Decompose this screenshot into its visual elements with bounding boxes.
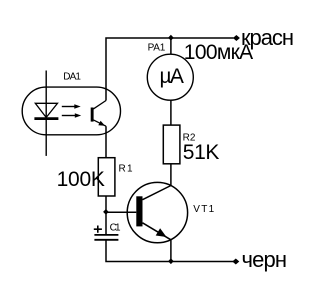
svg-text:µA: µA: [160, 65, 184, 88]
svg-text:черн: черн: [242, 247, 288, 272]
svg-text:100K: 100K: [57, 168, 105, 191]
svg-text:R1: R1: [119, 164, 133, 175]
svg-text:VT1: VT1: [193, 204, 214, 215]
svg-text:DA1: DA1: [63, 72, 81, 83]
svg-text:красн: красн: [241, 25, 294, 50]
svg-text:C1: C1: [110, 222, 121, 233]
svg-text:PA1: PA1: [148, 43, 166, 54]
svg-text:51K: 51K: [183, 141, 220, 164]
